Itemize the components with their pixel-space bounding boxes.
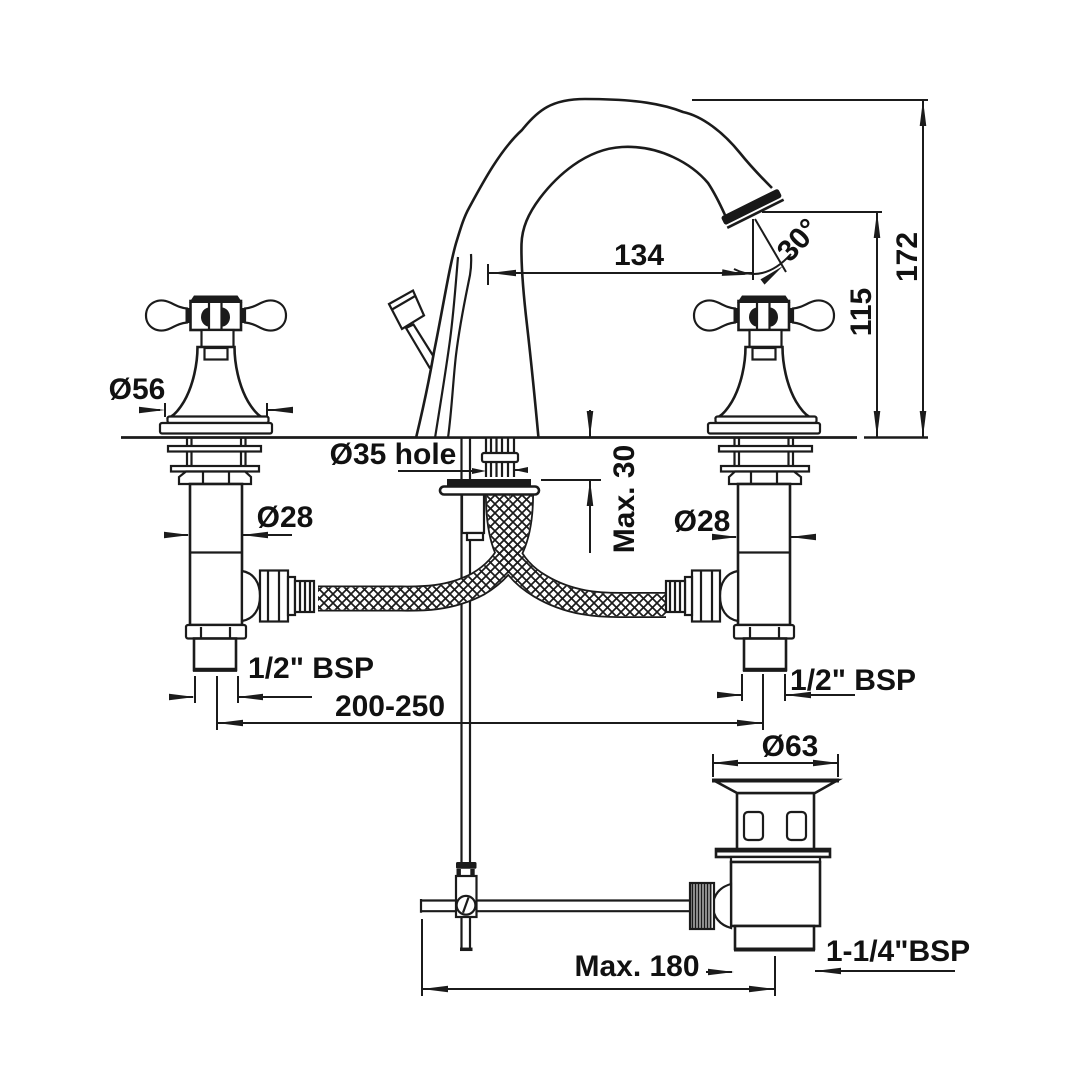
svg-text:115: 115 [845, 288, 878, 336]
svg-text:172: 172 [891, 232, 924, 282]
svg-text:Ø28: Ø28 [257, 501, 314, 534]
svg-text:Max. 30: Max. 30 [608, 445, 641, 553]
svg-text:Ø63: Ø63 [762, 730, 819, 763]
svg-text:1/2" BSP: 1/2" BSP [248, 652, 374, 685]
svg-text:Ø56: Ø56 [109, 373, 166, 406]
svg-text:134: 134 [614, 239, 664, 272]
svg-text:Ø28: Ø28 [674, 505, 731, 538]
svg-text:200-250: 200-250 [335, 690, 445, 723]
svg-text:1/2" BSP: 1/2" BSP [790, 664, 916, 697]
svg-text:Ø35 hole: Ø35 hole [330, 438, 457, 471]
svg-text:Max. 180: Max. 180 [574, 950, 699, 983]
svg-text:1-1/4"BSP: 1-1/4"BSP [826, 935, 970, 968]
